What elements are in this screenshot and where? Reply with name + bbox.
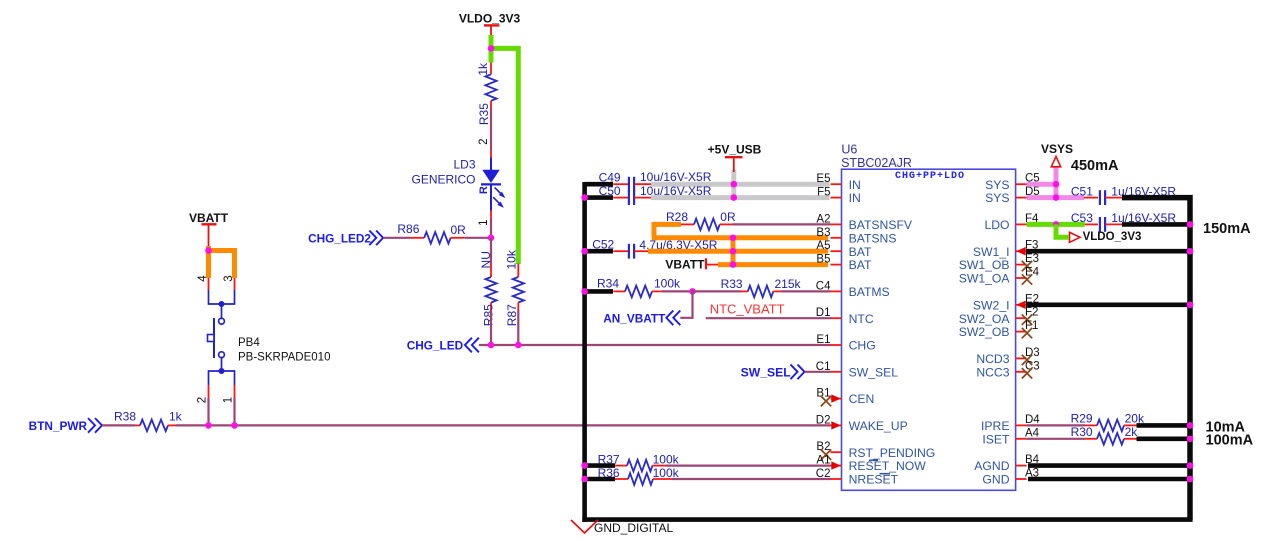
wire VBATT orange loop to PB4 pins 4,3 bbox=[206, 246, 234, 278]
pin C3 NCC3 U6 right bbox=[1016, 371, 1027, 373]
svg-text:A2: A2 bbox=[816, 213, 830, 225]
wire SW1_I F3 to GND bus bbox=[1026, 249, 1188, 254]
svg-text:VBATT: VBATT bbox=[189, 211, 229, 225]
node CHG_LED/R87 bbox=[515, 342, 522, 349]
svg-text:C52: C52 bbox=[592, 238, 614, 252]
wire BAT B5 orange bbox=[718, 262, 828, 267]
wire NTC_VBATT to U6 NTC bbox=[706, 317, 831, 319]
svg-text:D3: D3 bbox=[1025, 347, 1040, 359]
svg-text:F2: F2 bbox=[1025, 307, 1038, 319]
svg-text:B3: B3 bbox=[816, 227, 830, 239]
node GND bus / SW2_I bbox=[1187, 302, 1194, 309]
svg-text:D4: D4 bbox=[1025, 414, 1040, 426]
wire green branch to R87 column bbox=[491, 48, 518, 264]
svg-text:SW_SEL: SW_SEL bbox=[849, 365, 899, 379]
wire R33 to U6 BATMS bbox=[781, 290, 831, 292]
svg-text:C3: C3 bbox=[1025, 360, 1040, 372]
wire BTN_PWR to R38 bbox=[102, 424, 135, 426]
svg-text:C50: C50 bbox=[599, 184, 621, 198]
pin E3 SW1_OB U6 right bbox=[1016, 264, 1027, 266]
svg-text:450mA: 450mA bbox=[1071, 158, 1119, 174]
wire GND A3 to GND bus bbox=[1028, 477, 1188, 482]
svg-text:NCC3: NCC3 bbox=[976, 365, 1009, 379]
svg-text:SW_SEL: SW_SEL bbox=[741, 365, 792, 379]
wire orange vertical BAT bus bbox=[731, 236, 736, 265]
svg-text:10u/16V-X5R: 10u/16V-X5R bbox=[640, 184, 712, 198]
resistor R87 10k bbox=[517, 264, 519, 278]
pin F3 SW1_I U6 right bbox=[1016, 250, 1027, 252]
ground GND_DIGITAL bbox=[571, 520, 598, 533]
wire SW2_I E2 to GND bus bbox=[1026, 302, 1188, 307]
node +5V_USB / IN F5 bbox=[731, 194, 738, 201]
svg-text:10k: 10k bbox=[505, 249, 519, 269]
svg-text:R34: R34 bbox=[597, 276, 619, 290]
svg-text:CHG: CHG bbox=[849, 339, 876, 353]
wire R87 to CHG_LED bbox=[517, 310, 519, 346]
wire R34 to node bbox=[662, 290, 693, 292]
svg-text:0R: 0R bbox=[720, 210, 736, 224]
wire BAT A5 orange bbox=[648, 249, 828, 254]
svg-text:B5: B5 bbox=[816, 254, 830, 266]
pin D4 IPRE U6 right bbox=[1016, 424, 1027, 426]
wire R30 to GND bus bbox=[1137, 436, 1189, 441]
svg-text:E1: E1 bbox=[816, 334, 830, 346]
node BAT bus / BAT B5 bbox=[730, 261, 737, 268]
svg-text:BATSNS: BATSNS bbox=[849, 231, 897, 245]
wire CHG_LED to U6 CHG bbox=[479, 344, 831, 346]
resistor R85 NU bbox=[490, 238, 492, 264]
svg-text:R87: R87 bbox=[505, 304, 519, 326]
node GND bus / GND bbox=[1187, 476, 1194, 483]
net arrow VLDO_3V3 right bbox=[1070, 232, 1081, 242]
svg-text:R37: R37 bbox=[598, 453, 620, 467]
wire C53 to GND bus right bbox=[1122, 222, 1188, 227]
svg-text:100mA: 100mA bbox=[1206, 433, 1254, 449]
svg-text:R33: R33 bbox=[721, 277, 743, 291]
svg-text:100k: 100k bbox=[654, 276, 681, 290]
wire VLDO_3V3 green drop bbox=[489, 35, 494, 63]
svg-text:1: 1 bbox=[223, 397, 235, 403]
pin F4 LDO U6 right bbox=[1016, 223, 1027, 225]
node GND bus / R29 bbox=[1187, 422, 1194, 429]
pin F1 SW2_OB U6 right bbox=[1016, 331, 1027, 333]
svg-text:D1: D1 bbox=[816, 307, 831, 319]
svg-text:R30: R30 bbox=[1071, 425, 1093, 439]
resistor R86 0R bbox=[410, 237, 424, 239]
wire CHG_LED2 to R86 bbox=[383, 237, 410, 239]
svg-text:A1: A1 bbox=[816, 455, 830, 467]
svg-text:R86: R86 bbox=[397, 222, 419, 236]
node GND bus / C50 bbox=[581, 194, 588, 201]
svg-text:R28: R28 bbox=[666, 210, 688, 224]
svg-text:0R: 0R bbox=[451, 223, 467, 237]
push button PB4 PB-SKRPADE010 bbox=[208, 278, 210, 290]
pin D5 SYS U6 right bbox=[1016, 197, 1027, 199]
pin C1 SW_SEL U6 left bbox=[831, 371, 842, 373]
svg-text:BAT: BAT bbox=[849, 258, 872, 272]
pin B2 RST_PENDING U6 left bbox=[831, 451, 842, 453]
pin A5 BAT U6 left bbox=[831, 250, 842, 252]
svg-text:BATSNSFV: BATSNSFV bbox=[849, 218, 913, 232]
svg-text:D2: D2 bbox=[816, 414, 831, 426]
svg-text:2k: 2k bbox=[1125, 425, 1139, 439]
svg-text:C4: C4 bbox=[816, 280, 831, 292]
svg-text:100k: 100k bbox=[653, 453, 680, 467]
svg-text:C49: C49 bbox=[599, 170, 621, 184]
pin B5 BAT U6 left bbox=[831, 264, 842, 266]
svg-text:IN: IN bbox=[849, 178, 861, 192]
pin NRESET overbar bbox=[880, 473, 891, 475]
wire SYS C5 pink bbox=[1027, 182, 1059, 187]
wire IN E5 grey bbox=[651, 182, 830, 187]
wire AN_VBATT L to node bbox=[680, 291, 692, 317]
svg-text:BTN_PWR: BTN_PWR bbox=[29, 419, 88, 433]
svg-text:NTC: NTC bbox=[849, 312, 874, 326]
node BTN_PWR/PB4 pin1 bbox=[231, 422, 238, 429]
wire +5V_USB grey drop bbox=[731, 170, 736, 200]
svg-text:R36: R36 bbox=[598, 466, 620, 480]
node GND bus / C52 bbox=[581, 248, 588, 255]
svg-text:C51: C51 bbox=[1071, 185, 1093, 199]
node CHG_LED/R85 bbox=[488, 342, 495, 349]
node BTN_PWR/PB4 pin2 bbox=[205, 422, 212, 429]
pin D1 NTC U6 left bbox=[831, 317, 842, 319]
svg-text:4: 4 bbox=[197, 275, 209, 282]
svg-text:STBC02AJR: STBC02AJR bbox=[841, 156, 912, 170]
svg-text:IPRE: IPRE bbox=[981, 419, 1009, 433]
resistor R34 100k bbox=[585, 289, 613, 294]
svg-text:GENERICO: GENERICO bbox=[411, 173, 475, 187]
pin E1 CHG U6 left bbox=[831, 344, 842, 346]
svg-text:PB-SKRPADE010: PB-SKRPADE010 bbox=[238, 352, 330, 364]
svg-text:F1: F1 bbox=[1025, 320, 1038, 332]
svg-text:C53: C53 bbox=[1071, 211, 1093, 225]
svg-text:R: R bbox=[478, 186, 490, 194]
svg-text:NCD3: NCD3 bbox=[976, 352, 1009, 366]
svg-text:PB4: PB4 bbox=[238, 337, 260, 349]
wire R86 to LED node bbox=[465, 237, 491, 239]
capacitor C49 10u/16V-X5R bbox=[585, 182, 613, 187]
node GND bus / R36 bbox=[581, 476, 588, 483]
svg-text:BAT: BAT bbox=[849, 245, 872, 259]
wire GND bus left vertical bbox=[582, 182, 587, 522]
pin A2 BATSNSFV U6 left bbox=[831, 223, 842, 225]
pin C2 NRESET U6 left bbox=[831, 478, 842, 480]
node GND bus / R30 bbox=[1187, 436, 1194, 443]
pin B1 CEN U6 left bbox=[831, 398, 842, 400]
svg-text:RST_PENDING: RST_PENDING bbox=[849, 446, 936, 460]
pin RESET_NOW overbar bbox=[869, 459, 878, 461]
wire R36 to U6 NRESET bbox=[672, 478, 831, 480]
wire SYS D5 pink bbox=[1027, 195, 1084, 200]
svg-text:NRESET: NRESET bbox=[849, 473, 899, 487]
svg-text:WAKE_UP: WAKE_UP bbox=[849, 419, 908, 433]
wire R38 to U6 WAKE_UP bbox=[176, 424, 831, 426]
pin D3 NCD3 U6 right bbox=[1016, 357, 1027, 359]
pin E4 SW1_OA U6 right bbox=[1016, 277, 1027, 279]
svg-text:LD3: LD3 bbox=[453, 158, 475, 172]
svg-text:CHG_LED: CHG_LED bbox=[407, 339, 464, 353]
pin F5 IN U6 left bbox=[831, 197, 842, 199]
node GND bus / AGND bbox=[1187, 462, 1194, 469]
op-amp U6 STBC02AJR body bbox=[842, 169, 1016, 490]
svg-text:SW1_I: SW1_I bbox=[973, 245, 1010, 259]
pin F2 SW2_OA U6 right bbox=[1016, 317, 1027, 319]
wire IN F5 grey bbox=[651, 195, 830, 200]
resistor R36 100k bbox=[585, 477, 615, 482]
svg-text:CHG_LED2: CHG_LED2 bbox=[308, 231, 371, 245]
node VBATT/PB4 junction bbox=[205, 247, 212, 254]
wire LD3 to CHG_LED2 node bbox=[490, 218, 492, 238]
svg-text:U6: U6 bbox=[841, 142, 857, 156]
svg-text:E3: E3 bbox=[1025, 253, 1039, 265]
svg-text:CHG+PP+LDO: CHG+PP+LDO bbox=[895, 171, 965, 182]
LED LD3 light arrows bbox=[493, 187, 504, 206]
pin B4 AGND U6 right bbox=[1016, 465, 1027, 467]
svg-text:E4: E4 bbox=[1025, 267, 1040, 279]
svg-text:E5: E5 bbox=[816, 173, 830, 185]
node BAT bus / BAT A5 bbox=[730, 248, 737, 255]
node GND bus / SW1_I bbox=[1187, 248, 1194, 255]
wire VSYS pink drop bbox=[1054, 167, 1059, 198]
svg-text:C2: C2 bbox=[816, 468, 831, 480]
svg-text:AGND: AGND bbox=[974, 459, 1009, 473]
svg-text:SW2_I: SW2_I bbox=[973, 298, 1010, 312]
node VSYS / SYS C5 bbox=[1053, 181, 1060, 188]
wire PB4 pin1 to BTN_PWR net bbox=[233, 398, 235, 425]
wire R29 to GND bus bbox=[1137, 423, 1189, 428]
wire R35 to LD3 bbox=[490, 108, 492, 152]
node VLDO_3V3 branch bbox=[488, 45, 495, 52]
svg-text:SW1_OA: SW1_OA bbox=[959, 272, 1011, 286]
node GND bus / C53 bbox=[1187, 221, 1194, 228]
node R34/R33/AN_VBATT bbox=[689, 288, 696, 295]
svg-text:NU: NU bbox=[479, 251, 493, 268]
resistor R28 0R bbox=[652, 222, 681, 238]
svg-text:IN: IN bbox=[849, 191, 861, 205]
svg-text:F5: F5 bbox=[817, 187, 830, 199]
svg-text:A4: A4 bbox=[1025, 427, 1040, 439]
wire R37 to U6 RESET_NOW bbox=[666, 465, 831, 467]
node GND bus / R34 bbox=[581, 288, 588, 295]
svg-text:1k: 1k bbox=[169, 409, 183, 423]
svg-text:SW1_OB: SW1_OB bbox=[959, 258, 1010, 272]
node LDO / VLDO_3V3 bbox=[1053, 221, 1060, 228]
resistor R35 1k bbox=[490, 63, 492, 75]
svg-text:VBATT: VBATT bbox=[665, 258, 705, 272]
pin A1 RESET_NOW U6 left bbox=[831, 465, 842, 467]
svg-text:SYS: SYS bbox=[985, 178, 1009, 192]
svg-text:R29: R29 bbox=[1071, 411, 1093, 425]
wire C51 to GND bus right bbox=[1122, 198, 1190, 520]
node +5V_USB / IN E5 bbox=[731, 181, 738, 188]
svg-text:VLDO_3V3: VLDO_3V3 bbox=[459, 12, 521, 26]
svg-text:150mA: 150mA bbox=[1203, 221, 1251, 237]
svg-text:ISET: ISET bbox=[982, 432, 1010, 446]
svg-text:SW2_OB: SW2_OB bbox=[959, 325, 1010, 339]
capacitor C51 1u/16V-X5R bbox=[1084, 197, 1098, 199]
wire VLDO_3V3 green L bbox=[1056, 224, 1069, 237]
capacitor C53 1u/16V-X5R bbox=[1085, 223, 1098, 225]
svg-text:NTC_VBATT: NTC_VBATT bbox=[710, 302, 785, 317]
node CHG_LED2/LD3/R85 bbox=[488, 235, 495, 242]
wire GND bus bottom horizontal bbox=[582, 517, 1192, 522]
wire ISET to R30 bbox=[1027, 438, 1085, 440]
svg-text:GND: GND bbox=[982, 473, 1009, 487]
wire AGND B4 to GND bus bbox=[1028, 463, 1188, 468]
pin C5 SYS U6 right bbox=[1016, 183, 1027, 185]
svg-text:1: 1 bbox=[478, 219, 490, 225]
pin D2 WAKE_UP U6 left bbox=[831, 424, 842, 426]
pin A4 ISET U6 right bbox=[1016, 438, 1027, 440]
pin C4 BATMS U6 left bbox=[831, 290, 842, 292]
resistor R29 20k bbox=[1085, 424, 1097, 426]
svg-text:C1: C1 bbox=[816, 361, 831, 373]
svg-text:LDO: LDO bbox=[984, 218, 1009, 232]
svg-text:AN_VBATT: AN_VBATT bbox=[603, 311, 666, 325]
wire BATSNS B3 orange bbox=[652, 235, 828, 240]
svg-text:VLDO_3V3: VLDO_3V3 bbox=[1083, 231, 1142, 243]
svg-text:SYS: SYS bbox=[985, 191, 1009, 205]
wire PB4 pin2 to BTN_PWR net bbox=[207, 398, 209, 425]
resistor R30 2k bbox=[1085, 438, 1097, 440]
svg-text:2: 2 bbox=[478, 138, 490, 144]
svg-text:SW2_OA: SW2_OA bbox=[959, 312, 1011, 326]
svg-text:BATMS: BATMS bbox=[849, 285, 890, 299]
resistor R37 100k bbox=[585, 463, 615, 468]
pin B3 BATSNS U6 left bbox=[831, 237, 842, 239]
pin E5 IN U6 left bbox=[831, 183, 842, 185]
node GND bus / R37 bbox=[581, 462, 588, 469]
wire R85 to CHG_LED bbox=[490, 310, 492, 346]
svg-text:R38: R38 bbox=[114, 409, 136, 423]
wire R28 to U6 BATSNSFV bbox=[733, 223, 831, 225]
capacitor C50 10u/16V-X5R bbox=[585, 195, 613, 200]
svg-text:2: 2 bbox=[197, 397, 209, 403]
wire LDO F4 green bbox=[1027, 222, 1085, 227]
node VSYS / SYS D5 bbox=[1053, 194, 1060, 201]
svg-text:1k: 1k bbox=[476, 62, 490, 76]
wire IPRE to R29 bbox=[1027, 424, 1085, 426]
svg-text:CEN: CEN bbox=[849, 392, 875, 406]
pin A3 GND U6 right bbox=[1016, 478, 1027, 480]
svg-text:R35: R35 bbox=[477, 103, 491, 125]
wire SW_SEL to U6 bbox=[805, 371, 831, 373]
wire node to R33 bbox=[693, 290, 742, 292]
svg-text:RESET_NOW: RESET_NOW bbox=[849, 459, 927, 473]
resistor R33 215k bbox=[741, 290, 748, 292]
svg-text:VSYS: VSYS bbox=[1041, 142, 1073, 156]
svg-text:10u/16V-X5R: 10u/16V-X5R bbox=[640, 170, 712, 184]
svg-text:+5V_USB: +5V_USB bbox=[708, 142, 762, 156]
capacitor C52 4.7u/6.3V-X5R bbox=[585, 249, 613, 254]
svg-text:A5: A5 bbox=[816, 240, 830, 252]
svg-text:GND_DIGITAL: GND_DIGITAL bbox=[594, 521, 673, 535]
svg-text:R85: R85 bbox=[482, 304, 496, 326]
pin E2 SW2_I U6 right bbox=[1016, 304, 1027, 306]
resistor R38 1k bbox=[135, 424, 140, 426]
node BAT bus / BATSNS bbox=[730, 235, 737, 242]
svg-text:215k: 215k bbox=[775, 277, 802, 291]
svg-text:3: 3 bbox=[223, 275, 235, 281]
